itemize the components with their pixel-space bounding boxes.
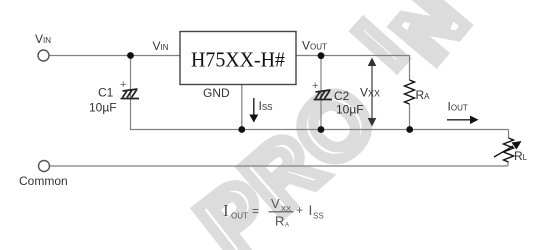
svg-text:GND: GND — [203, 86, 230, 100]
voltage arrow VXX — [368, 58, 377, 127]
wire GND pin — [241, 85, 243, 130]
svg-text:C1: C1 — [98, 86, 114, 100]
watermark PROIN — [181, 0, 482, 250]
svg-text:10µF: 10µF — [336, 103, 364, 117]
wire middle ground rail — [130, 129, 509, 131]
wire RL drop — [508, 130, 510, 139]
regulator U1 H75XX-H# box — [180, 32, 296, 85]
wire VIN terminal to regulator input — [49, 55, 180, 57]
svg-text:+: + — [120, 79, 126, 91]
wire VOUT rail — [296, 55, 410, 57]
node junction C2 bottom — [318, 126, 325, 133]
resistor RA — [405, 80, 415, 104]
current arrow ISS — [249, 98, 258, 123]
node junction GND rail — [238, 126, 245, 133]
wire RA top — [409, 55, 411, 80]
svg-text:OUT: OUT — [231, 212, 248, 221]
wire C2 branch — [320, 56, 322, 130]
terminal VIN — [38, 50, 49, 61]
wire RA bottom — [409, 104, 411, 130]
terminal Common — [39, 161, 50, 172]
svg-text:R: R — [275, 214, 284, 229]
svg-text:10µF: 10µF — [89, 101, 117, 115]
formula IOUT = VXX/RA + ISS — [223, 196, 324, 229]
node junction RA bottom — [406, 126, 413, 133]
wire C1 branch — [130, 56, 132, 130]
svg-text:SS: SS — [313, 212, 324, 221]
svg-text:VXX: VXX — [360, 86, 380, 100]
svg-text:+: + — [312, 80, 318, 92]
current arrow IOUT — [447, 116, 479, 124]
svg-text:+: + — [296, 203, 303, 217]
svg-text:=: = — [252, 204, 259, 218]
svg-text:V: V — [271, 196, 280, 211]
node junction VOUT/C2 — [318, 52, 325, 59]
arrow across RL — [494, 141, 522, 157]
svg-text:I: I — [309, 202, 313, 218]
svg-text:C2: C2 — [334, 89, 350, 103]
capacitor C1 — [121, 89, 140, 99]
capacitor C2 — [314, 90, 333, 100]
svg-text:A: A — [285, 223, 289, 229]
node junction VIN/C1 — [127, 52, 134, 59]
svg-text:Common: Common — [19, 174, 68, 188]
svg-text:I: I — [223, 201, 229, 220]
wire common rail — [50, 165, 509, 167]
svg-text:H75XX-H#: H75XX-H# — [191, 48, 285, 72]
resistor RL (variable) — [504, 138, 514, 162]
wire RL bottom — [507, 162, 509, 166]
